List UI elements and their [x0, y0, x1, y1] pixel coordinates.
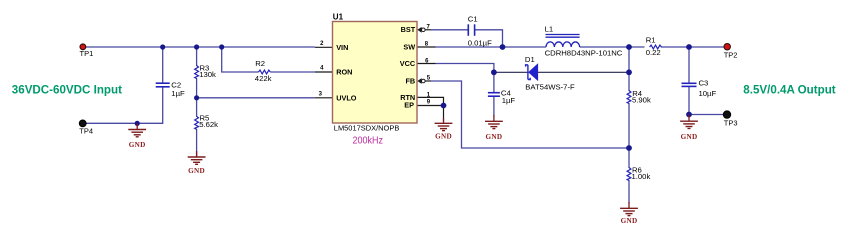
svg-text:CDRH8D43NP-101NC: CDRH8D43NP-101NC	[545, 49, 623, 58]
svg-text:C3: C3	[699, 79, 709, 88]
svg-text:RON: RON	[336, 68, 352, 77]
svg-text:0.01µF: 0.01µF	[468, 38, 492, 47]
svg-text:422k: 422k	[255, 74, 272, 83]
svg-text:TP4: TP4	[79, 127, 93, 136]
svg-text:GND: GND	[129, 141, 146, 149]
svg-text:GND: GND	[435, 133, 452, 141]
svg-text:130k: 130k	[199, 70, 216, 79]
svg-text:5.62k: 5.62k	[199, 120, 218, 129]
svg-text:BST: BST	[401, 25, 416, 34]
svg-text:1.00k: 1.00k	[632, 172, 651, 181]
svg-text:TP3: TP3	[724, 119, 738, 128]
svg-text:8.5V/0.4A Output: 8.5V/0.4A Output	[743, 83, 835, 96]
svg-text:BAT54WS-7-F: BAT54WS-7-F	[525, 83, 575, 92]
svg-text:LM5017SDX/NOPB: LM5017SDX/NOPB	[334, 124, 400, 133]
svg-text:GND: GND	[485, 133, 502, 141]
svg-text:36VDC-60VDC Input: 36VDC-60VDC Input	[12, 83, 122, 96]
svg-text:10µF: 10µF	[699, 89, 717, 98]
svg-text:EP: EP	[404, 101, 414, 110]
svg-text:VIN: VIN	[336, 43, 348, 52]
svg-text:UVLO: UVLO	[336, 93, 357, 102]
svg-text:D1: D1	[525, 55, 535, 64]
svg-text:VCC: VCC	[400, 59, 416, 68]
svg-text:TP1: TP1	[80, 49, 94, 58]
svg-text:C1: C1	[468, 15, 478, 24]
svg-text:1µF: 1µF	[502, 96, 516, 105]
svg-text:FB: FB	[405, 77, 415, 86]
svg-text:U1: U1	[333, 12, 344, 21]
svg-text:L1: L1	[545, 25, 554, 34]
svg-text:5.90k: 5.90k	[632, 96, 651, 105]
svg-text:TP2: TP2	[724, 51, 738, 60]
svg-text:GND: GND	[681, 133, 698, 141]
svg-text:R1: R1	[646, 36, 656, 45]
svg-text:200kHz: 200kHz	[353, 136, 384, 147]
svg-text:1µF: 1µF	[171, 89, 185, 98]
svg-text:0.22: 0.22	[646, 48, 661, 57]
svg-text:GND: GND	[621, 217, 638, 225]
svg-text:GND: GND	[188, 167, 205, 175]
svg-text:R2: R2	[255, 59, 265, 68]
svg-text:SW: SW	[403, 43, 415, 52]
